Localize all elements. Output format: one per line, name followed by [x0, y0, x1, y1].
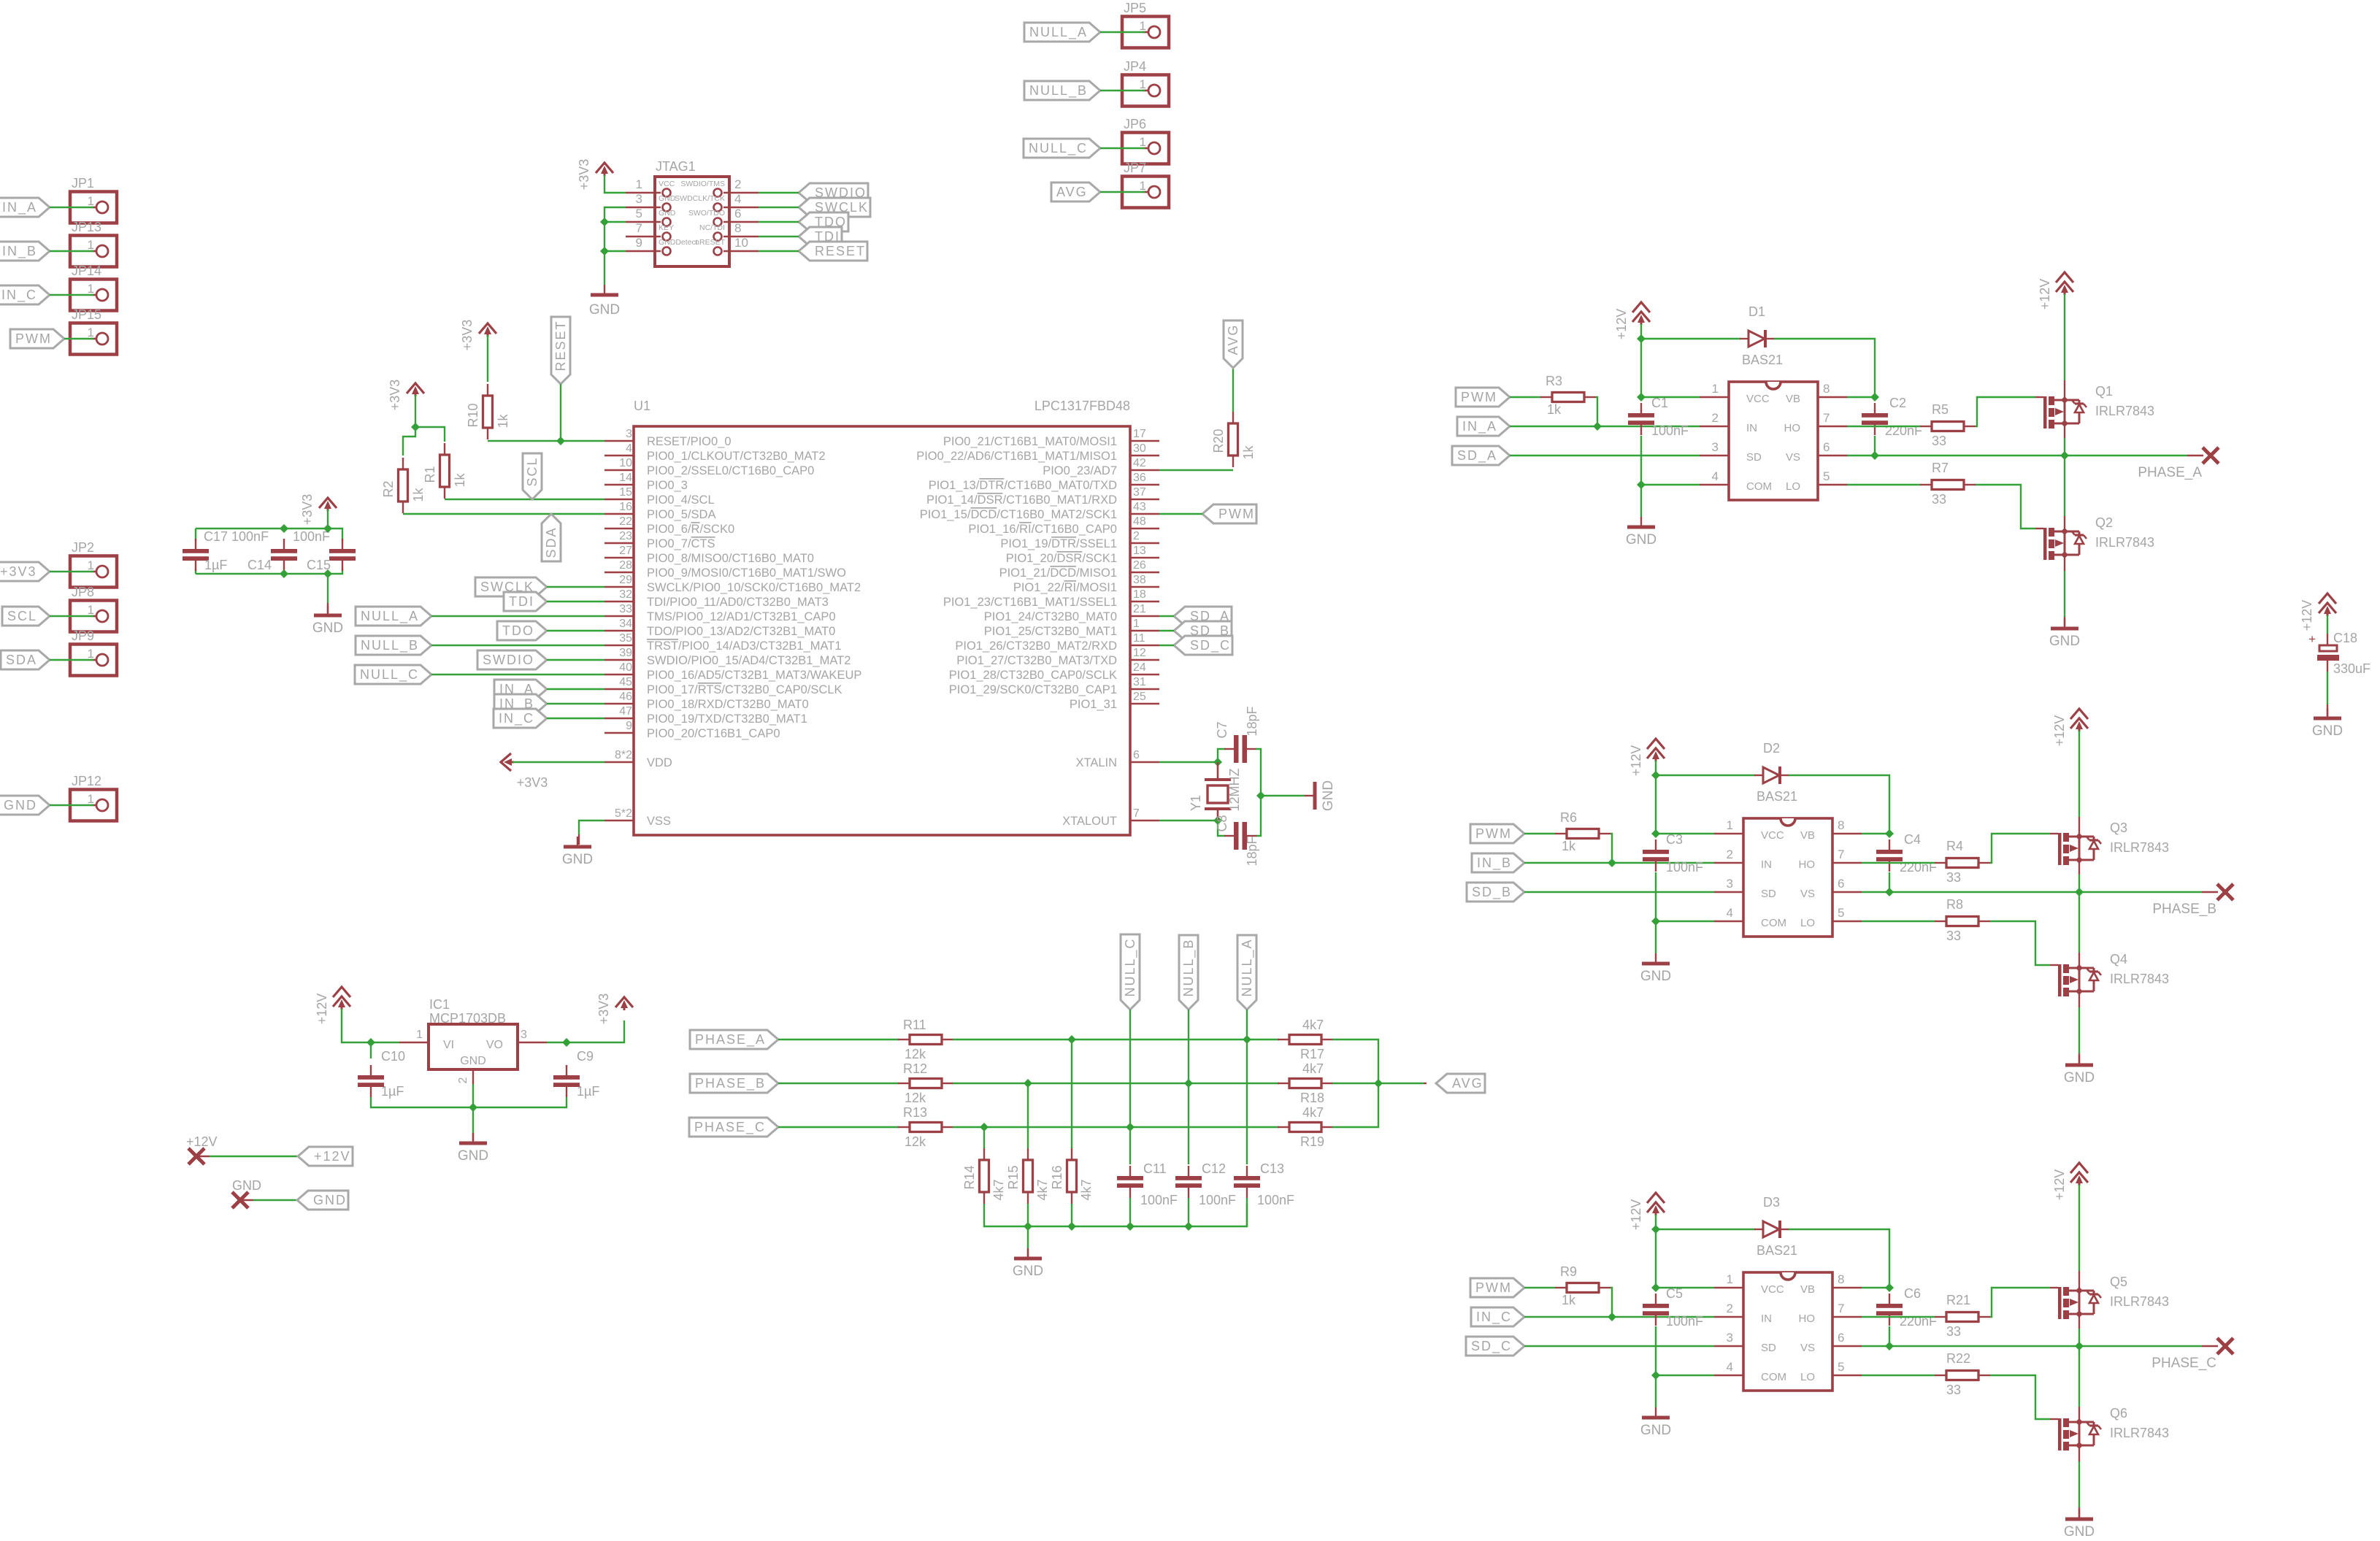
capacitor C8 18pF: [1224, 835, 1234, 837]
flag TDI: [504, 592, 547, 611]
flag SWDIO: [477, 650, 547, 669]
svg-text:PHASE_C: PHASE_C: [694, 1120, 766, 1135]
svg-text:12: 12: [1133, 647, 1146, 659]
svg-text:2: 2: [1727, 1302, 1733, 1315]
wire gnd rail: [371, 1097, 567, 1107]
svg-text:GND: GND: [1013, 1264, 1043, 1279]
ground: [1640, 517, 1642, 527]
pin 17: [1130, 440, 1159, 442]
svg-text:29: 29: [619, 574, 632, 586]
flag SD_A: [1452, 446, 1510, 465]
wire: [759, 207, 799, 208]
svg-text:VCC: VCC: [1746, 393, 1770, 405]
gate driver IC (driver B): [1743, 818, 1832, 937]
resistor R12 12k: [778, 1083, 899, 1084]
svg-text:C13: C13: [1260, 1161, 1284, 1176]
svg-text:IRLR7843: IRLR7843: [2110, 1294, 2169, 1309]
capacitor C12 100nF: [1188, 1166, 1189, 1176]
svg-text:PWM: PWM: [15, 331, 52, 346]
wire HO row: [1862, 1316, 1935, 1318]
pin 40: [604, 674, 634, 675]
svg-text:C7: C7: [1215, 721, 1229, 738]
svg-text:C9: C9: [577, 1049, 594, 1064]
svg-text:3: 3: [626, 428, 632, 440]
wire VS/PHASE row: [1862, 1345, 2202, 1347]
svg-text:SD: SD: [1746, 451, 1762, 464]
svg-text:+12V: +12V: [314, 1149, 351, 1164]
wire: [1246, 1198, 1248, 1226]
svg-text:NULL_A: NULL_A: [1029, 25, 1088, 40]
resistor R20 1k: [1232, 412, 1234, 423]
wire drain high: [2078, 1185, 2080, 1271]
flag GND: [0, 796, 50, 815]
wire COM row: [1641, 484, 1700, 485]
svg-text:PWM: PWM: [1218, 507, 1255, 521]
svg-text:1k: 1k: [1547, 402, 1562, 417]
svg-text:IRLR7843: IRLR7843: [2110, 972, 2169, 986]
wire: [604, 250, 626, 252]
svg-text:4k7: 4k7: [991, 1179, 1006, 1200]
wire avg bus: [1332, 1039, 1378, 1127]
svg-text:GND: GND: [460, 1055, 486, 1067]
svg-text:33: 33: [1946, 1383, 1961, 1397]
wire: [327, 510, 329, 529]
svg-text:NULL_B: NULL_B: [1181, 938, 1197, 996]
svg-text:JTAG1: JTAG1: [656, 159, 696, 174]
svg-text:1: 1: [88, 238, 94, 252]
resistor R7 33: [1920, 484, 1932, 485]
wire: [759, 192, 799, 193]
svg-text:1µF: 1µF: [577, 1084, 599, 1099]
wire: [547, 601, 604, 602]
transistor Q4 IRLR7843: [2050, 964, 2058, 966]
svg-text:22: 22: [619, 515, 632, 528]
svg-text:2: 2: [1712, 411, 1719, 425]
svg-text:BAS21: BAS21: [1742, 353, 1783, 367]
diode D1 BAS21: [1641, 338, 1740, 339]
svg-text:R13: R13: [903, 1105, 927, 1120]
wire: [1100, 90, 1145, 91]
junction: [1885, 1342, 1894, 1350]
svg-text:C12: C12: [1202, 1161, 1226, 1176]
svg-text:R8: R8: [1946, 897, 1963, 912]
svg-text:PIO0_20/CT16B1_CAP0: PIO0_20/CT16B1_CAP0: [647, 727, 780, 740]
svg-text:12k: 12k: [905, 1047, 926, 1061]
wire diode cathode to VB: [1789, 775, 1889, 834]
svg-text:LPC1317FBD48: LPC1317FBD48: [1034, 399, 1130, 413]
connector JP1: [70, 192, 117, 223]
wire: [1027, 1204, 1029, 1253]
pin 24: [1130, 674, 1159, 675]
svg-text:+12V: +12V: [2300, 600, 2314, 631]
svg-text:SD_A: SD_A: [1457, 448, 1497, 464]
svg-text:C10: C10: [381, 1049, 405, 1064]
svg-text:IN_C: IN_C: [1476, 1310, 1512, 1325]
pin 8*2 VDD: [604, 761, 634, 763]
svg-text:PHASE_B: PHASE_B: [2152, 902, 2216, 917]
svg-text:VI: VI: [443, 1039, 454, 1051]
svg-text:TDO/PIO0_13/AD2/CT32B1_MAT0: TDO/PIO0_13/AD2/CT32B1_MAT0: [647, 625, 835, 638]
svg-text:4k7: 4k7: [1302, 1105, 1324, 1120]
capacitor C2 220nF: [1874, 403, 1876, 413]
svg-text:C2: C2: [1889, 396, 1906, 410]
svg-text:JP5: JP5: [1124, 1, 1146, 15]
connector JP8: [70, 601, 117, 632]
svg-text:GND: GND: [2049, 634, 2080, 649]
wire row A: [953, 1039, 1279, 1040]
svg-text:SD: SD: [1761, 1342, 1776, 1354]
junction: [1213, 758, 1222, 766]
flag IN_A: [1457, 417, 1510, 436]
junction: [1651, 829, 1660, 838]
wire: [50, 659, 93, 661]
flag SD_B: [1467, 883, 1524, 902]
wire NULL_A col: [1246, 1010, 1248, 1164]
wire: [1159, 630, 1174, 631]
wire: [547, 688, 604, 690]
wire LO row: [1862, 1375, 1935, 1376]
svg-text:R6: R6: [1560, 810, 1577, 825]
svg-text:8*2: 8*2: [615, 749, 632, 761]
svg-text:+12V: +12V: [186, 1134, 218, 1149]
wire R to IN net: [1596, 397, 1597, 426]
connector JP14: [70, 280, 117, 311]
flag RESET: [799, 242, 867, 261]
svg-text:330uF: 330uF: [2333, 661, 2371, 676]
svg-text:12k: 12k: [905, 1134, 926, 1149]
wire C7 branch: [1218, 749, 1225, 762]
svg-text:NULL_C: NULL_C: [360, 667, 419, 683]
pin 31: [1130, 688, 1159, 690]
flag NULL_A: [1024, 23, 1100, 42]
svg-text:6: 6: [1838, 877, 1844, 891]
junction: [1024, 1079, 1032, 1088]
flag +3V3: [0, 562, 50, 581]
junction: [1256, 791, 1265, 800]
svg-text:PIO0_21/CT16B1_MAT0/MOSI1: PIO0_21/CT16B1_MAT0/MOSI1: [943, 435, 1117, 448]
svg-text:15: 15: [619, 486, 632, 499]
svg-text:NC/TDI: NC/TDI: [699, 223, 725, 232]
svg-text:17: 17: [1133, 428, 1146, 440]
svg-text:2: 2: [457, 1077, 469, 1083]
flag TDO: [799, 212, 848, 231]
svg-text:7: 7: [636, 221, 642, 235]
svg-text:PIO0_7/CTS: PIO0_7/CTS: [647, 537, 715, 550]
pin 27: [604, 557, 634, 558]
svg-text:1: 1: [88, 194, 94, 208]
wire: [472, 1084, 474, 1107]
svg-text:D3: D3: [1763, 1195, 1780, 1210]
svg-text:2: 2: [1133, 530, 1140, 542]
flag AVG: [1051, 182, 1100, 201]
capacitor C15: [342, 539, 343, 549]
svg-text:2: 2: [1727, 848, 1733, 861]
power +3V3: [319, 498, 337, 508]
wire: [487, 335, 488, 382]
wire: [431, 645, 604, 646]
wire row C: [953, 1126, 1279, 1128]
wire pin42 to R20: [1159, 469, 1233, 471]
capacitor C6 220nF: [1889, 1294, 1890, 1304]
svg-text:AVG: AVG: [1452, 1076, 1483, 1091]
connector JP5: [1122, 17, 1169, 48]
svg-text:COM: COM: [1761, 917, 1786, 929]
svg-text:25: 25: [1133, 691, 1146, 703]
svg-text:RESET: RESET: [815, 244, 866, 258]
node PHASE_B: [2217, 884, 2233, 900]
svg-text:SWDIO/TMS: SWDIO/TMS: [680, 180, 725, 188]
wire VCC row: [1656, 833, 1714, 834]
svg-text:+: +: [2308, 632, 2316, 646]
svg-text:4: 4: [734, 192, 741, 206]
svg-text:1: 1: [1727, 1272, 1733, 1286]
svg-text:AVG: AVG: [1226, 324, 1240, 356]
pin 30: [1130, 455, 1159, 456]
svg-text:COM: COM: [1761, 1371, 1786, 1383]
svg-text:1: 1: [88, 792, 94, 806]
svg-text:27: 27: [619, 545, 632, 557]
svg-text:+12V: +12V: [1629, 1199, 1643, 1231]
wire: [560, 384, 561, 441]
svg-text:5: 5: [1823, 469, 1830, 483]
junction: [1651, 917, 1660, 926]
svg-text:SWDIO: SWDIO: [483, 653, 534, 667]
svg-text:33: 33: [1932, 434, 1946, 448]
wire: [547, 586, 604, 588]
wire VB row: [1847, 396, 1875, 398]
svg-text:1k: 1k: [453, 472, 467, 487]
svg-text:47: 47: [619, 705, 632, 718]
flag NULL_A: [1237, 935, 1256, 1010]
wire gate high: [1990, 834, 2050, 863]
power +12V (driver C): [1647, 1193, 1665, 1203]
transistor Q5 IRLR7843: [2050, 1287, 2058, 1288]
svg-text:NULL_B: NULL_B: [1029, 83, 1088, 99]
ground: [1305, 795, 1315, 796]
wire: [1256, 749, 1261, 836]
resistor R10 1k: [487, 384, 488, 396]
wire COM row: [1656, 1375, 1714, 1376]
junction: [1651, 1225, 1660, 1234]
power +3V3: [479, 323, 496, 334]
svg-text:GND: GND: [1640, 969, 1671, 984]
svg-text:45: 45: [619, 676, 632, 688]
svg-text:GND: GND: [2312, 723, 2343, 739]
svg-text:PWM: PWM: [1475, 826, 1512, 841]
pin 36: [1130, 484, 1159, 485]
resistor R22 33: [1935, 1375, 1946, 1376]
wire: [1332, 1083, 1424, 1084]
svg-text:LO: LO: [1800, 917, 1815, 929]
svg-text:1: 1: [1140, 77, 1146, 91]
junction: [1885, 829, 1894, 838]
svg-text:IC1: IC1: [429, 997, 450, 1012]
junction: [280, 524, 288, 533]
wire JTAG gnd column: [604, 207, 626, 285]
svg-text:21: 21: [1133, 603, 1146, 615]
pin 21: [1130, 615, 1159, 617]
wire: [50, 571, 93, 572]
junction: [600, 247, 609, 255]
svg-text:JP2: JP2: [72, 540, 94, 555]
svg-text:IN: IN: [1761, 858, 1772, 871]
resistor R17 4k7: [1278, 1039, 1289, 1040]
svg-text:PHASE_A: PHASE_A: [2138, 465, 2202, 480]
svg-text:JP13: JP13: [72, 220, 101, 234]
power +12V above Q1: [2056, 272, 2073, 283]
wire: [759, 250, 799, 252]
flag PWM: [10, 329, 64, 348]
svg-text:NULL_C: NULL_C: [1029, 141, 1088, 156]
svg-text:35: 35: [619, 632, 632, 645]
flag IN_B: [1472, 853, 1524, 872]
svg-text:R12: R12: [903, 1061, 927, 1076]
transistor Q2 IRLR7843: [2035, 528, 2043, 529]
svg-text:Q5: Q5: [2110, 1275, 2127, 1289]
svg-text:+3V3: +3V3: [388, 380, 402, 411]
wire XTALOUT: [1159, 820, 1218, 821]
wire HO row: [1847, 426, 1920, 427]
svg-text:PIO1_27/CT32B0_MAT3/TXD: PIO1_27/CT32B0_MAT3/TXD: [956, 654, 1117, 667]
wire: [403, 427, 415, 456]
svg-text:1: 1: [88, 282, 94, 296]
resistor R3 1k: [1510, 396, 1540, 398]
wire: [50, 294, 93, 296]
resistor R14 4k7: [983, 1127, 985, 1148]
pin 38: [1130, 586, 1159, 588]
svg-text:R10: R10: [466, 403, 480, 427]
svg-text:4: 4: [1727, 906, 1733, 920]
svg-text:R9: R9: [1560, 1264, 1577, 1279]
svg-text:3: 3: [1712, 440, 1719, 454]
svg-text:18: 18: [1133, 588, 1146, 601]
svg-text:3: 3: [636, 192, 642, 206]
wire: [547, 659, 604, 661]
ground: [2064, 618, 2065, 629]
svg-text:+3V3: +3V3: [0, 564, 37, 579]
wire: [1129, 1198, 1131, 1226]
flag IN_C: [1471, 1307, 1524, 1326]
power +3V3 (VDD): [501, 753, 511, 771]
svg-text:GND: GND: [1626, 532, 1657, 547]
svg-text:Q6: Q6: [2110, 1406, 2127, 1421]
svg-text:39: 39: [619, 647, 632, 659]
capacitor C9 1µF: [566, 1065, 567, 1075]
svg-text:PIO0_3: PIO0_3: [647, 479, 688, 492]
pin 18: [1130, 601, 1159, 602]
svg-text:1: 1: [1712, 382, 1719, 396]
connector JP2: [70, 556, 117, 588]
ground: [1655, 953, 1657, 964]
svg-text:18pF: 18pF: [1245, 706, 1259, 736]
svg-text:R17: R17: [1300, 1047, 1324, 1061]
svg-text:7: 7: [1838, 1302, 1844, 1315]
wire: [1100, 31, 1145, 33]
svg-text:1: 1: [416, 1029, 423, 1041]
wire LO row: [1847, 484, 1920, 485]
wire VCC row: [1641, 396, 1700, 398]
svg-text:1k: 1k: [411, 487, 426, 502]
diode D2 BAS21: [1656, 775, 1755, 776]
svg-text:IN: IN: [1761, 1313, 1772, 1325]
capacitor C11 100nF: [1129, 1166, 1131, 1176]
junction: [1067, 1222, 1076, 1231]
svg-text:10: 10: [619, 457, 632, 469]
resistor R19 4k7: [1278, 1126, 1289, 1128]
svg-text:VB: VB: [1800, 1283, 1815, 1296]
svg-text:PHASE_C: PHASE_C: [2151, 1356, 2216, 1371]
wire IN_A row: [1510, 426, 1700, 427]
svg-text:9: 9: [636, 236, 642, 250]
svg-text:38: 38: [1133, 574, 1146, 586]
svg-text:PIO0_22/AD6/CT16B1_MAT1/MISO1: PIO0_22/AD6/CT16B1_MAT1/MISO1: [916, 450, 1117, 463]
junction: [1637, 393, 1646, 401]
svg-text:RESET/PIO0_0: RESET/PIO0_0: [647, 435, 732, 448]
flag PWM: [1470, 824, 1524, 843]
connector JP9: [70, 645, 117, 676]
junction: [1126, 1222, 1135, 1231]
junction: [280, 569, 288, 578]
svg-text:PIO1_20/DSR/SCK1: PIO1_20/DSR/SCK1: [1006, 552, 1117, 565]
wire +12V rail: [1655, 1215, 1657, 1288]
svg-text:100nF: 100nF: [1666, 1314, 1703, 1329]
pin 6 XTALIN: [1130, 761, 1159, 763]
svg-text:100nF: 100nF: [1199, 1193, 1236, 1207]
svg-text:GND: GND: [313, 1193, 347, 1207]
power +3V3: [615, 997, 633, 1007]
svg-text:PIO0_16/AD5/CT32B1_MAT3/WAKEUP: PIO0_16/AD5/CT32B1_MAT3/WAKEUP: [647, 669, 861, 682]
power +12V (driver B): [1647, 739, 1665, 749]
flag SCL: [2, 607, 50, 626]
pin 10: [604, 469, 634, 471]
wire gate low: [1990, 921, 2050, 965]
flag PHASE_A: [690, 1030, 778, 1049]
pin 14: [604, 484, 634, 485]
svg-text:LO: LO: [1800, 1371, 1815, 1383]
svg-text:KEY: KEY: [659, 223, 674, 232]
svg-text:GND: GND: [1321, 780, 1336, 811]
svg-text:+3V3: +3V3: [300, 494, 315, 526]
node GND: [232, 1192, 248, 1208]
gate driver IC (driver C): [1743, 1272, 1832, 1391]
svg-text:PHASE_B: PHASE_B: [695, 1076, 766, 1091]
svg-text:TDO: TDO: [502, 623, 534, 638]
resistor R8 33: [1935, 921, 1946, 922]
svg-text:R1: R1: [423, 466, 437, 483]
svg-text:NULL_B: NULL_B: [361, 638, 419, 653]
svg-text:PIO1_24/CT32B0_MAT0: PIO1_24/CT32B0_MAT0: [984, 610, 1117, 623]
svg-text:IRLR7843: IRLR7843: [2110, 1426, 2169, 1440]
svg-text:VB: VB: [1800, 829, 1815, 842]
svg-text:43: 43: [1133, 501, 1146, 513]
junction: [1870, 393, 1879, 401]
svg-text:GND: GND: [2064, 1070, 2095, 1085]
wire to gnd: [327, 574, 329, 603]
svg-text:IRLR7843: IRLR7843: [2110, 840, 2169, 855]
svg-text:VCC: VCC: [659, 180, 675, 188]
svg-text:SWDCLK/TCK: SWDCLK/TCK: [675, 194, 725, 203]
svg-text:GND: GND: [562, 852, 593, 867]
svg-text:JP8: JP8: [72, 585, 94, 599]
svg-text:R11: R11: [903, 1018, 926, 1032]
flag NULL_A: [356, 607, 431, 626]
wire: [431, 615, 604, 617]
svg-text:1µF: 1µF: [381, 1084, 404, 1099]
svg-text:R18: R18: [1300, 1091, 1324, 1105]
svg-text:GND: GND: [659, 194, 676, 203]
svg-text:MCP1703DB: MCP1703DB: [429, 1011, 506, 1026]
pin 2: [1130, 542, 1159, 544]
